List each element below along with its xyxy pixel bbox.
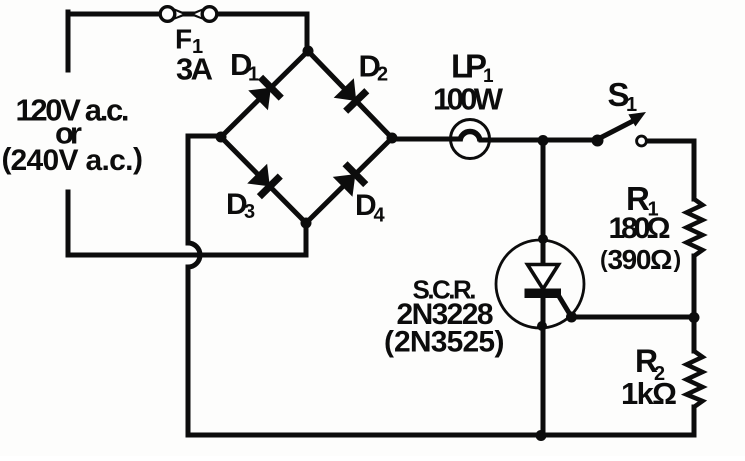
svg-text:4: 4 xyxy=(374,205,386,227)
node bridge top xyxy=(303,46,314,57)
wire bridge right node to lamp xyxy=(392,137,459,142)
node gate-R1-R2 junction xyxy=(689,312,700,323)
svg-text:2: 2 xyxy=(377,64,388,86)
wire SCR anode vertical xyxy=(541,140,546,267)
wire right vertical between R1 and R2 xyxy=(692,256,697,351)
svg-text:F: F xyxy=(175,24,192,55)
wire bridge arm D3 xyxy=(221,137,306,223)
wire SCR gate horizontal xyxy=(571,315,694,320)
wire right vertical below R2 xyxy=(692,407,697,435)
node lamp-SCR junction xyxy=(538,135,549,146)
wire bridge left node to left branch xyxy=(188,134,221,139)
svg-text:180Ω: 180Ω xyxy=(609,212,671,245)
svg-text:240V a.c.: 240V a.c. xyxy=(11,144,134,177)
wire bridge arm D2 xyxy=(308,51,392,138)
svg-text:3: 3 xyxy=(244,201,255,223)
resistor R2 xyxy=(687,351,703,407)
diode D4 xyxy=(332,161,368,197)
wire bridge bottom stub xyxy=(304,223,309,255)
diode D3 xyxy=(247,163,283,199)
wire left branch vertical with hop over crossing xyxy=(188,136,200,435)
svg-text:(: ( xyxy=(384,326,394,359)
diode D1 xyxy=(248,75,284,111)
svg-text:2N3525: 2N3525 xyxy=(394,326,495,359)
wire left vertical lower segment xyxy=(66,192,71,255)
wire right vertical above R1 xyxy=(692,141,697,199)
wire top horizontal from source to bridge xyxy=(68,12,307,17)
wire bottom-left horizontal to bridge bottom xyxy=(68,253,306,258)
svg-text:1kΩ: 1kΩ xyxy=(621,376,677,411)
svg-text:): ) xyxy=(495,326,505,359)
svg-text:1: 1 xyxy=(626,94,637,116)
resistor R1 xyxy=(687,199,703,256)
wire top-right corner down to bridge top node xyxy=(305,14,310,51)
node bridge left xyxy=(216,132,227,143)
wire bottom horizontal xyxy=(188,433,694,438)
wire SCR cathode vertical down to bottom xyxy=(541,295,546,435)
fuse F1 xyxy=(160,7,217,22)
node bridge right xyxy=(387,133,398,144)
wire bridge arm D1 xyxy=(221,51,308,137)
wire switch to right corner xyxy=(646,139,694,144)
node SCR cathode to bottom wire xyxy=(536,430,547,441)
wire bridge arm D4 xyxy=(306,138,392,223)
lamp LP1 xyxy=(451,120,490,159)
SCR Q1 xyxy=(496,234,584,331)
switch S1 xyxy=(592,112,647,147)
diode D2 xyxy=(333,78,369,114)
svg-text:390Ω: 390Ω xyxy=(608,244,673,275)
svg-text:1: 1 xyxy=(248,64,259,86)
wire lamp to switch xyxy=(481,138,597,143)
wire left vertical upper segment xyxy=(66,12,71,70)
svg-text:LP: LP xyxy=(451,48,487,85)
svg-text:100W: 100W xyxy=(433,82,504,117)
svg-text:3A: 3A xyxy=(176,52,213,87)
node bridge bottom xyxy=(301,218,312,229)
svg-text:): ) xyxy=(133,143,143,176)
svg-text:): ) xyxy=(674,246,682,272)
